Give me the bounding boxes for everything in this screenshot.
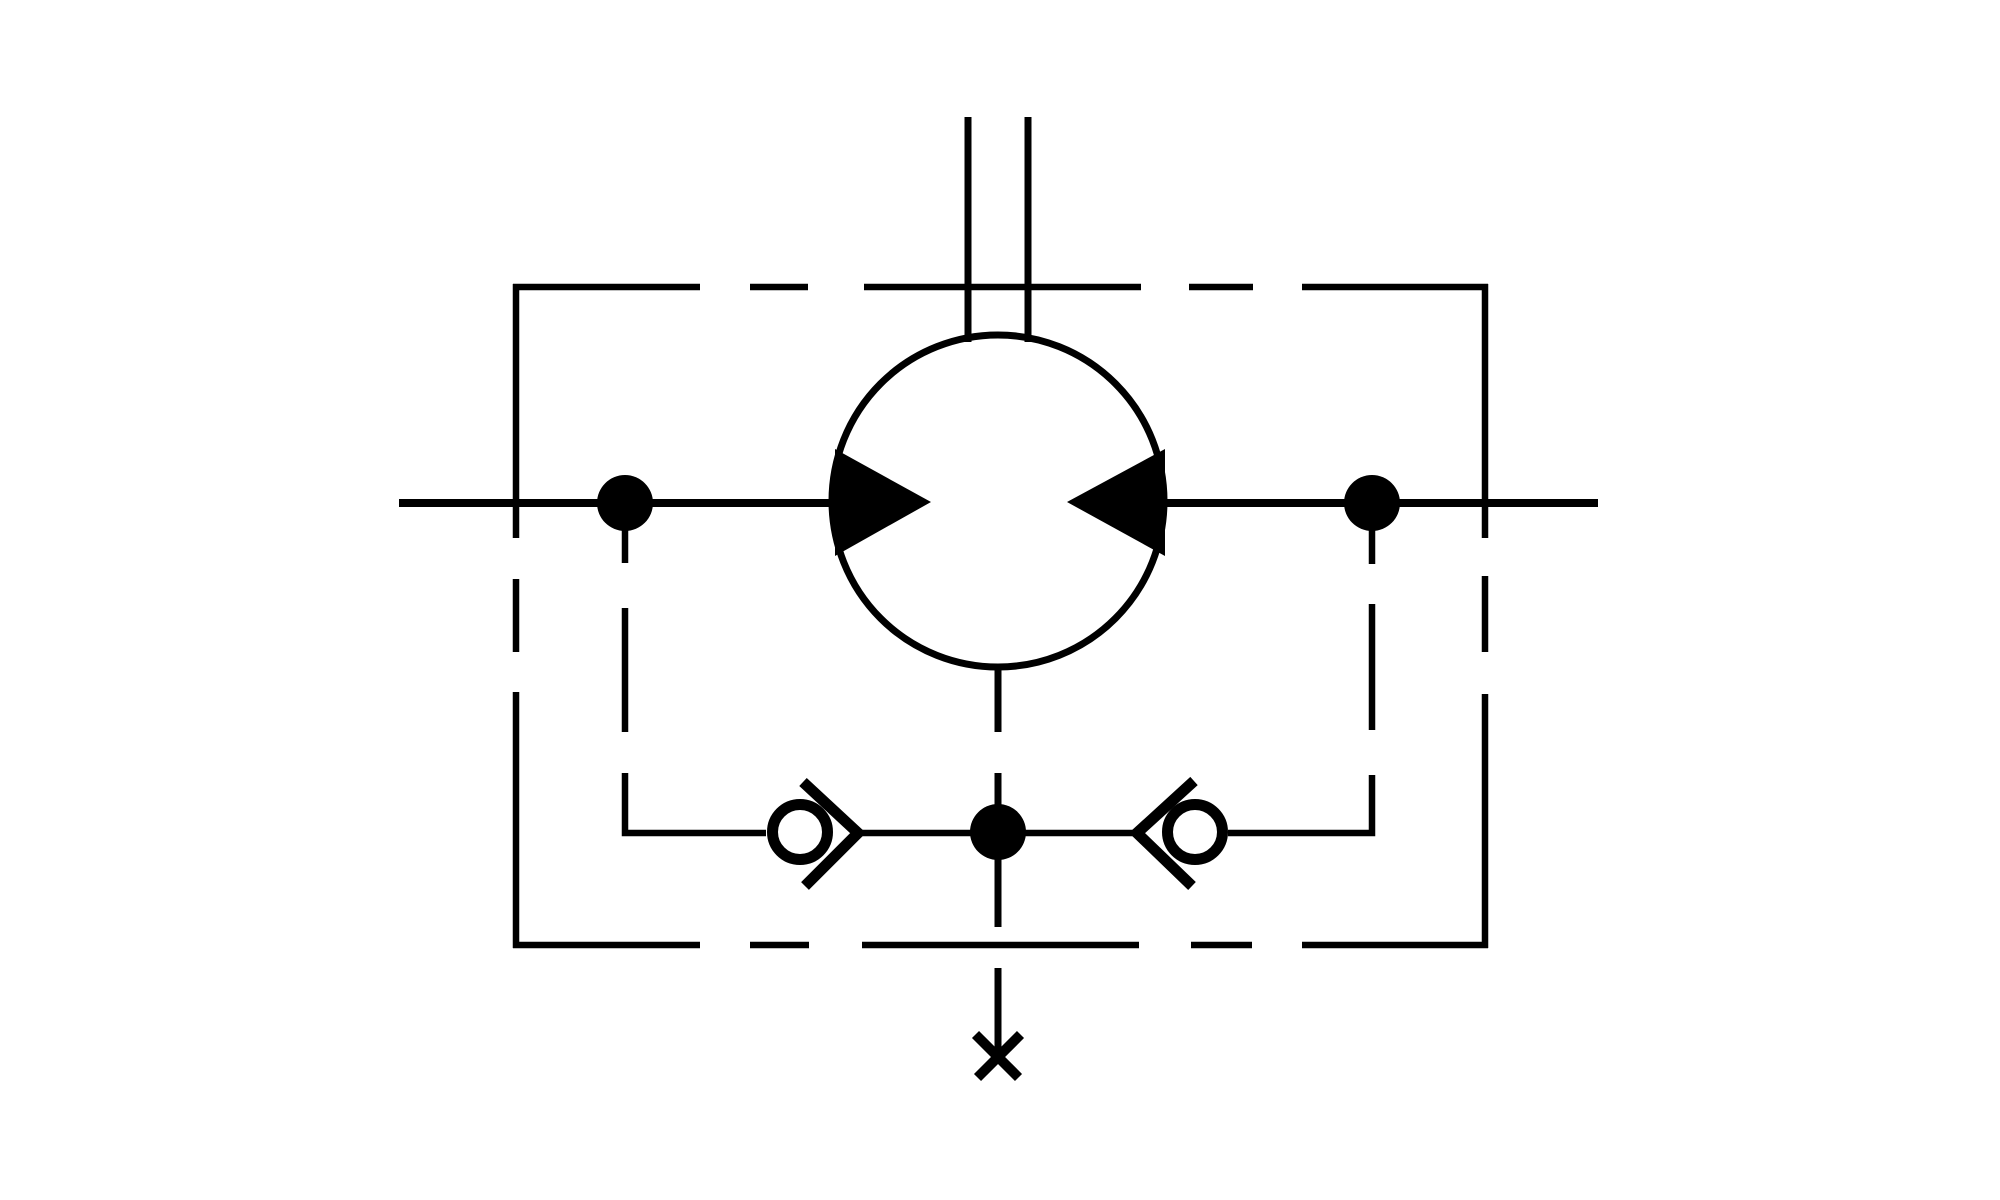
check valve CV2 seat <box>1137 781 1194 886</box>
enclosure dashed box: bottom edge <box>513 942 1488 949</box>
node B (right port junction) <box>1344 475 1400 531</box>
wire: right branch dashed drop from node B <box>1369 510 1376 730</box>
arrow left (flow triangle) <box>835 449 931 556</box>
motor M1 circle <box>832 335 1164 667</box>
check valve CV1 ball <box>773 805 828 860</box>
enclosure dashed box: left edge <box>513 284 520 948</box>
wire: main port line B (right) <box>1148 499 1598 507</box>
node C (drain junction) <box>970 804 1026 860</box>
wire: drain line below enclosure <box>995 968 1002 1058</box>
wire: main port line A (left) <box>399 499 852 507</box>
wire: left branch corner into valve line <box>625 773 766 833</box>
wire: left branch dashed drop from node A <box>622 510 629 732</box>
wire: right branch corner into valve line <box>1228 775 1372 833</box>
shaft line left <box>965 117 972 342</box>
node A (left port junction) <box>597 475 653 531</box>
wire: valve line between check valves through node C <box>860 830 1134 837</box>
wire: drain line from motor to node C (dashed) <box>995 665 1002 927</box>
enclosure dashed box: top edge <box>513 284 1488 291</box>
arrow right (flow triangle) <box>1067 449 1165 556</box>
shaft line right <box>1025 117 1032 342</box>
check valve CV2 ball <box>1168 805 1223 860</box>
check valve CV1 seat <box>803 782 858 886</box>
case drain plug X <box>976 1035 1021 1078</box>
enclosure dashed box: right edge <box>1482 284 1489 948</box>
